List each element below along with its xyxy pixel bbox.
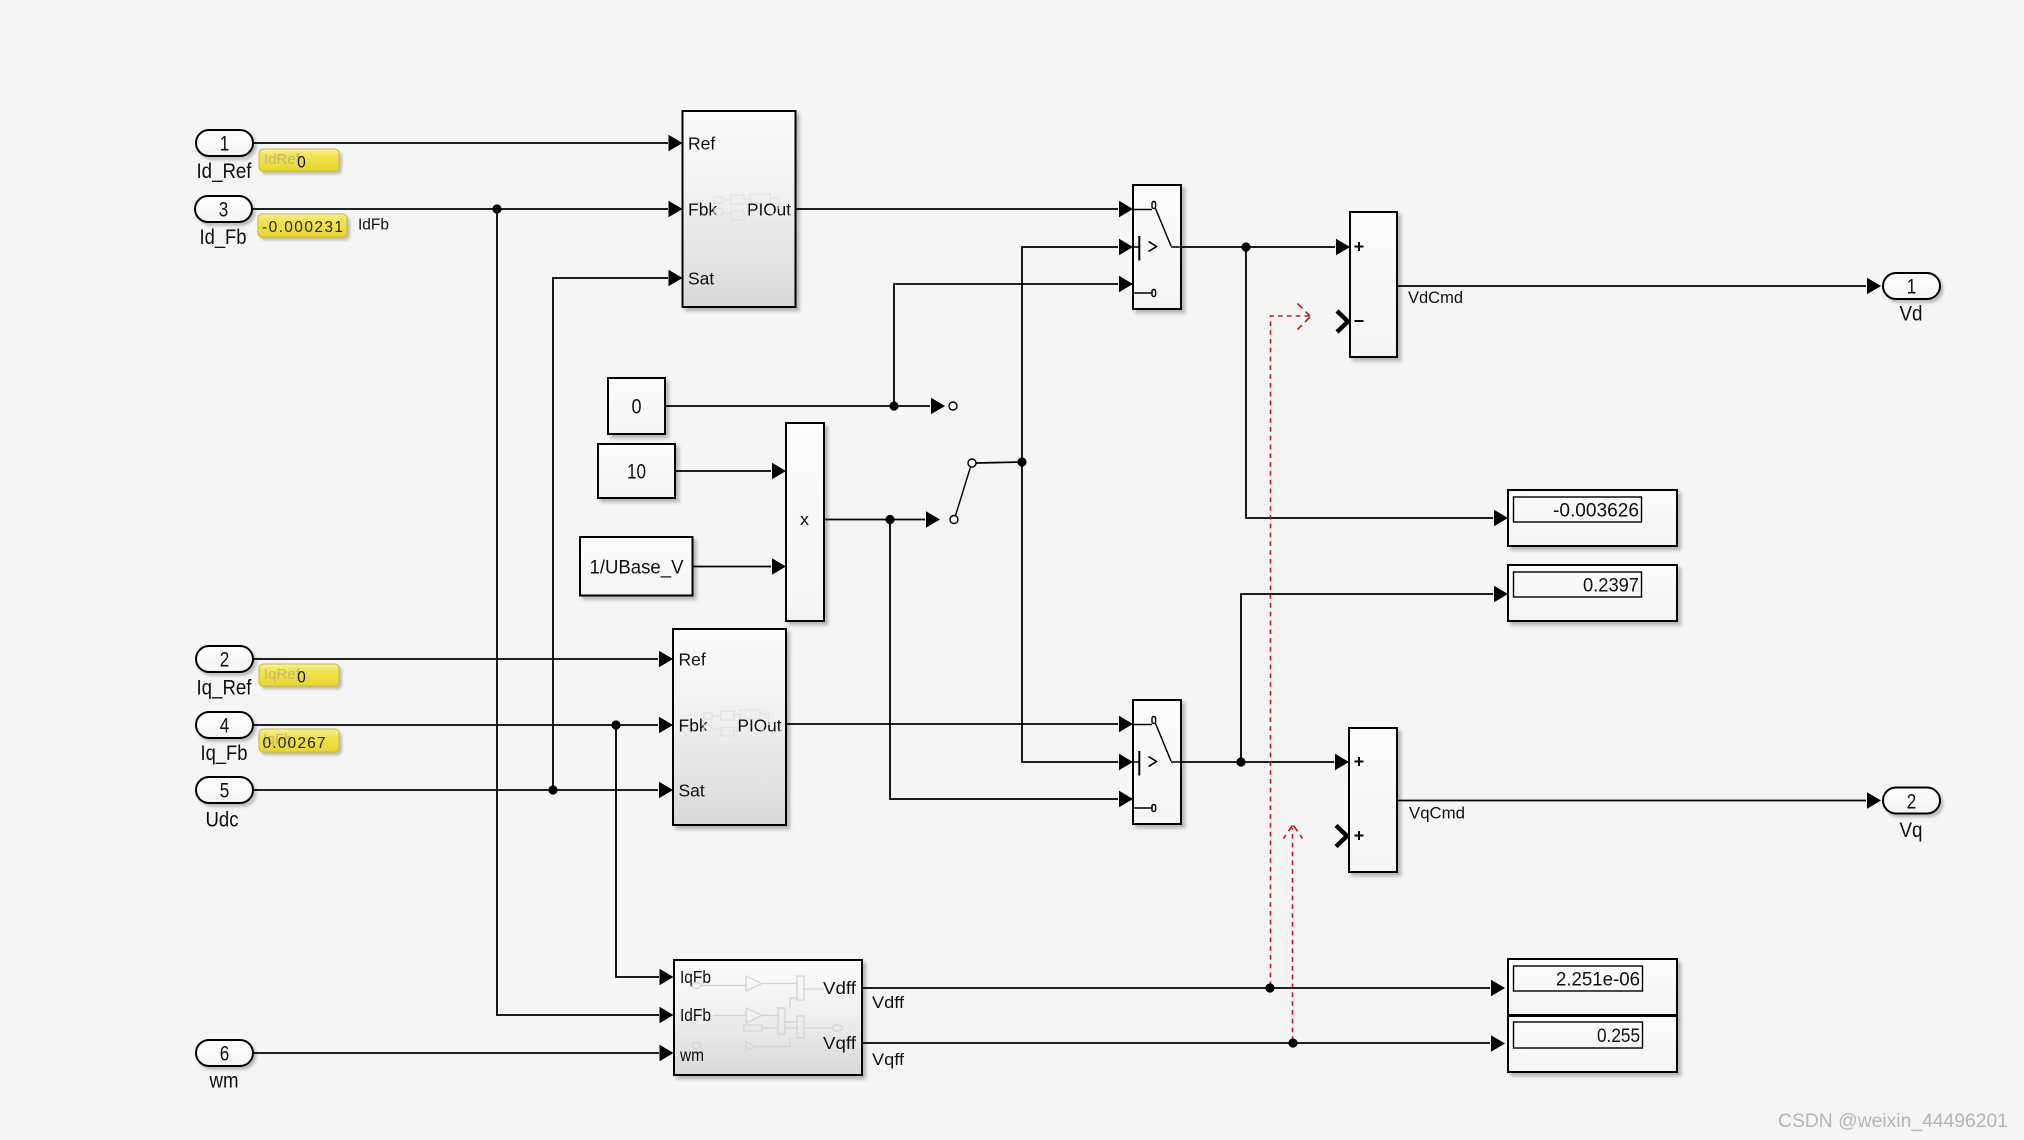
PI_d ghost preview [714,194,790,222]
value label tag -0.000231 [258,214,347,237]
svg-text:IqRef: IqRef [264,666,301,683]
unconnected port mark sum_q plus2 [1336,826,1347,847]
manual switch lever [956,467,971,516]
wire Id_Fb branch down to FF IdFb [497,209,674,1023]
svg-text:VdCmd: VdCmd [1408,289,1463,307]
wire control to switch_d control input [1022,239,1133,462]
display block 2.251e-06 [1508,959,1677,1015]
wire control to switch_q control input [1022,462,1133,770]
svg-text:IdFb: IdFb [680,1005,711,1025]
inport 6 wm [196,1040,253,1093]
switch block switch_d [1133,185,1181,309]
manual switch upper throw circle [949,402,957,410]
value label tag IdRef 0 [259,149,339,172]
wire switch_q output to sum_q [1180,754,1349,770]
svg-text:5: 5 [220,780,230,803]
svg-text:Udc: Udc [206,809,239,832]
svg-text:6: 6 [220,1043,230,1066]
junction on Vdff wire [1265,983,1274,992]
svg-text:VqCmd: VqCmd [1409,805,1465,823]
svg-text:-0.003626: -0.003626 [1553,501,1639,522]
svg-text:IdFb: IdFb [358,217,389,234]
wire Id_Ref to PI_d Ref [253,135,683,151]
display block 0.255 [1508,1016,1677,1072]
inport 4 Iq_Fb [196,712,253,765]
svg-text:1: 1 [1907,276,1917,299]
junction control node [1017,457,1026,466]
wire Udc branch to PI_d Sat [553,270,683,790]
svg-text:2: 2 [220,649,230,672]
svg-text:wm: wm [209,1070,239,1093]
junction on switch_d output [1241,242,1250,251]
svg-text:Id_Fb: Id_Fb [200,226,247,249]
PI_q ghost preview [704,710,780,738]
PI controller block PI_q [673,629,786,825]
svg-text:1: 1 [220,133,230,156]
wire switch_q branch to display 0.2397 [1241,586,1508,762]
svg-text:Sat: Sat [688,268,714,288]
outport 2 Vq [1883,788,1940,843]
svg-text:Sat: Sat [679,780,705,800]
wire manual switch common to control junction [976,462,1022,463]
wire FF Vdff to display 2.251e-06 [862,980,1505,996]
wire switch_d output to sum_d [1181,239,1350,255]
feedforward ghost preview [692,976,843,1051]
wire Iq_Fb branch down to FF IqFb [616,725,674,985]
svg-text:IqFb: IqFb [680,967,711,987]
svg-text:Fbk: Fbk [688,199,717,219]
wire product to manual switch lower throw [824,511,940,527]
svg-text:0.255: 0.255 [1597,1026,1640,1047]
unconnected port mark sum_d minus [1337,311,1348,332]
svg-text:-0.000231: -0.000231 [262,219,343,236]
junction on switch_q output [1236,757,1245,766]
svg-text:PIOut: PIOut [747,199,791,219]
wire Iq_Ref to PI_q Ref [253,651,673,667]
outport 1 Vd [1883,273,1940,326]
constant 0 [608,378,665,434]
svg-text:Vd: Vd [1900,303,1923,326]
sum block sum_q [1349,728,1397,872]
junction on Id_Fb wire [492,204,501,213]
product block x [786,423,824,621]
wire Udc to PI_q Sat [253,782,673,798]
constant 1/UBase_V [580,537,693,596]
svg-text:Vq: Vq [1900,819,1923,842]
svg-text:wm: wm [679,1045,704,1065]
wire branch 0 to switch_d bottom input [894,276,1133,406]
svg-text:x: x [800,510,810,529]
manual switch lower throw circle [950,516,958,524]
svg-text:3: 3 [219,199,229,222]
manual switch common circle [968,459,976,467]
svg-text:0.2397: 0.2397 [1583,576,1639,597]
value label tag 0.00267 [259,729,339,752]
inport 2 Iq_Ref [196,646,253,700]
svg-text:0: 0 [632,396,642,419]
svg-text:Iq_Ref: Iq_Ref [197,677,252,700]
constant 10 [598,444,675,498]
svg-text:Iq_Fb: Iq_Fb [201,742,248,765]
svg-text:Vqff: Vqff [872,1051,904,1069]
wire branch product to switch_q bottom input [890,520,1133,808]
svg-text:Id_Ref: Id_Ref [197,160,252,183]
svg-text:Ref: Ref [679,649,706,669]
svg-text:Vdff: Vdff [823,978,856,998]
display block -0.003626 [1508,490,1677,546]
svg-text:2: 2 [1907,791,1917,814]
svg-text:Ref: Ref [688,133,715,153]
inport 1 Id_Ref [196,130,253,183]
svg-text:2.251e-06: 2.251e-06 [1556,970,1640,991]
wire constant 0 to manual switch upper throw [665,398,945,414]
wire PI_q PIOut to switch_q first input [786,716,1133,732]
wire PI_d PIOut to switch_d first input [796,201,1134,217]
wire sum_q to outport Vq [1397,792,1881,808]
wire 1/UBase_V to product [693,558,787,574]
svg-text:10: 10 [627,461,646,484]
svg-text:1/UBase_V: 1/UBase_V [590,557,684,579]
wire FF Vqff to display 0.255 [862,1035,1505,1051]
red dashed pending wire to sum_q plus2 [1284,826,1303,1042]
junction on Iq_Fb wire [611,720,620,729]
junction on product wire [885,515,894,524]
value label tag IqRef 0 [259,664,339,687]
junction on Udc wire [548,785,557,794]
switch block switch_q [1133,700,1181,824]
junction on Vqff wire [1288,1038,1297,1047]
svg-text:Vqff: Vqff [823,1033,856,1053]
svg-text:Vdff: Vdff [872,994,904,1012]
svg-text:0: 0 [297,153,306,172]
display block 0.2397 [1508,565,1677,621]
junction on constant 0 wire [889,401,898,410]
svg-text:0.00267: 0.00267 [263,735,326,752]
PI controller block PI_d [683,111,796,307]
wire wm to FF wm [253,1045,674,1061]
wire constant 10 to product [675,463,786,479]
feedforward subsystem block [674,960,862,1075]
wire switch_d branch to display -0.003626 [1246,247,1508,526]
svg-text:0: 0 [297,668,306,687]
svg-text:4: 4 [220,715,230,738]
wire Id_Fb to PI_d Fbk [252,201,683,217]
inport 5 Udc [196,777,253,832]
red dashed pending wire to sum_d minus [1271,304,1311,987]
inport 3 Id_Fb [195,196,252,249]
wire sum_d to outport Vd [1397,278,1881,294]
svg-text:CSDN @weixin_44496201: CSDN @weixin_44496201 [1778,1111,2008,1132]
svg-text:IdRef: IdRef [264,151,301,168]
wire Iq_Fb to PI_q Fbk [253,717,673,733]
sum block sum_d [1350,212,1397,357]
